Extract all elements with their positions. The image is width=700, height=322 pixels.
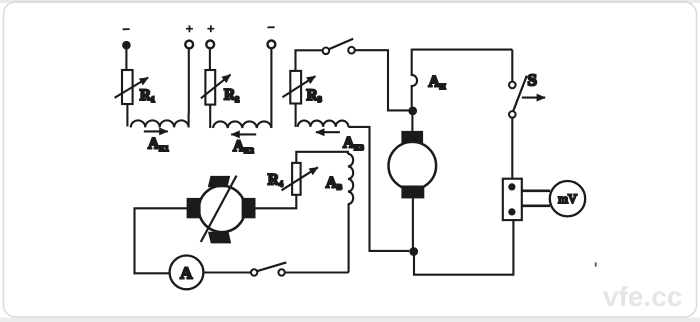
switch S lower contact [509,111,516,118]
wire T3 to R2 [209,48,211,70]
switch S upper contact [509,82,516,89]
switch K3 blade [329,39,353,50]
wire R1 to AK1 [126,104,128,127]
svg-text:A: A [180,263,193,282]
shunt terminal dot top [508,183,515,190]
motor M top brush [401,131,423,144]
label minus T4 [267,26,274,28]
terminal plus T3 [206,41,214,49]
wire switch K to AB [285,271,349,273]
wire switch S to shunt [511,118,513,179]
switch K right contact [278,269,284,275]
wire top bus to switch S [511,50,513,82]
wire AK1 stub up [188,114,190,128]
millivoltmeter mV [550,181,585,216]
ink speck [595,262,597,266]
wire T1 to R1 [125,49,127,70]
shunt box [503,179,522,220]
terminal minus T4 [268,41,276,49]
node A junction [408,107,417,116]
svg-text:vfe.cc: vfe.cc [603,281,682,312]
terminal minus T1 [122,41,131,50]
svg-text:mV: mV [558,192,577,206]
wire R3 to AK3 [295,104,297,127]
label minus T1 [123,28,130,30]
switch S blade [513,76,527,111]
resistor R1 [122,70,133,104]
inductor AK3 [298,121,349,127]
arrow AK1 current [144,130,168,132]
shunt terminal dot bottom [508,208,515,215]
switch K left contact [251,269,257,275]
machine G slash [201,176,237,242]
shunt lead to mV top [522,190,550,193]
svg-text:S: S [528,71,537,90]
wire machine left to ammeter [135,208,188,273]
wire node B to shunt bottom [414,220,513,275]
label plus T3 [207,25,214,32]
wire machine right to R4 [256,195,297,208]
machine G right brush [242,198,256,218]
machine G left brush [187,198,201,218]
wire node A to motor [411,113,413,132]
R3 wiper arrow [282,76,315,97]
motor M bottom brush [401,186,424,199]
wire AB bottom lead [348,204,350,273]
shunt lead to mV bottom [522,205,550,208]
wire R2 to AK2 [209,105,211,128]
wire switch K3 to node A [355,50,409,110]
R4 wiper arrow [282,167,318,190]
switch S arrow [522,97,545,99]
R1 wiper arrow [115,78,149,98]
arrow AK2 current [231,133,256,135]
node B junction [409,247,418,256]
wire R3 top lead [296,50,323,71]
wire T2 down [188,48,190,114]
inductor AB field winding [348,154,353,204]
ammeter A [170,256,204,290]
wire motor to node B [412,198,414,248]
label plus T2 [186,25,193,32]
switch K blade [257,262,286,271]
instrument AH loop [412,49,417,107]
wire R4 to AB top [296,152,348,163]
top bus wire [412,49,513,51]
switch K3 left contact [323,48,330,55]
switch K3 right contact [348,47,355,54]
resistor R3 [290,71,301,104]
wire AK3 to node B [348,127,409,251]
arrow AK3 current [316,131,340,133]
wire T4 to AK2 [270,48,272,128]
motor M armature [389,142,437,190]
machine G armature [199,186,245,232]
resistor R2 [205,70,215,105]
resistor R4 [292,163,301,195]
inductor AK1 [131,120,189,127]
inductor AK2 [213,121,271,128]
machine G top brush [208,176,230,187]
R2 wiper arrow [201,75,231,99]
terminal plus T2 [185,41,193,49]
machine G bottom brush [208,232,231,244]
wire ammeter to switch K [203,271,251,273]
